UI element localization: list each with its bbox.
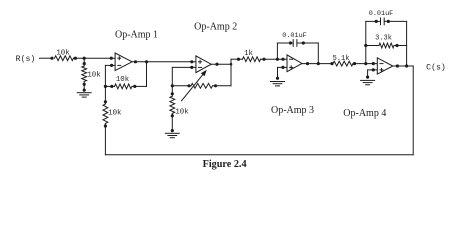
node junction (134, 60, 137, 63)
node C(s) output label (426, 62, 446, 72)
node junction (214, 84, 217, 87)
wire (171, 86, 173, 96)
potentiometer arrow (182, 70, 207, 101)
value label 10k R1 (56, 50, 70, 58)
wire (105, 85, 114, 87)
node junction (372, 62, 375, 65)
node junction (230, 63, 233, 66)
node junction (171, 114, 174, 117)
node junction (171, 129, 174, 132)
svg-text:10k: 10k (56, 50, 70, 58)
wire (213, 85, 232, 87)
wire (172, 85, 191, 87)
node junction (364, 62, 367, 65)
wire (393, 65, 413, 67)
capacitor C2 (U4 feedback) (381, 18, 385, 25)
node junction (110, 85, 113, 88)
ground G4 (361, 80, 375, 84)
value label 0.01uF C2 (369, 10, 393, 18)
wire (297, 42, 318, 44)
node junction (281, 58, 284, 61)
wire (366, 20, 381, 22)
op-amp U3 (287, 55, 302, 72)
wire (bottom feedback rail) (105, 154, 413, 156)
node junction (330, 62, 333, 65)
value label 10k R2 (87, 71, 101, 79)
node junction (110, 64, 113, 67)
wire (105, 64, 115, 66)
wire (74, 57, 116, 59)
value label 0.01uF C1 (282, 32, 306, 40)
resistor R7 5.1k (333, 61, 353, 66)
node junction (145, 60, 148, 63)
svg-text:3.3k: 3.3k (375, 35, 392, 43)
node junction (171, 84, 174, 87)
wire (104, 65, 106, 104)
op-amp U3 label (271, 105, 314, 116)
svg-text:10k: 10k (87, 71, 101, 79)
wire (261, 58, 288, 60)
svg-text:5.1k: 5.1k (333, 55, 350, 63)
node junction (133, 85, 136, 88)
node junction (83, 89, 86, 92)
node junction (190, 66, 193, 69)
node A junction (83, 57, 86, 60)
wire (132, 61, 196, 63)
node junction (50, 57, 53, 60)
wire (230, 59, 232, 86)
node junction (83, 83, 86, 86)
wire (276, 43, 278, 59)
node junction (396, 64, 399, 67)
node junction (387, 20, 390, 23)
node junction (281, 66, 284, 69)
op-amp U4 (377, 58, 393, 74)
svg-text:0.01uF: 0.01uF (369, 10, 393, 18)
wire (171, 67, 173, 85)
svg-text:R(s): R(s) (16, 54, 36, 64)
node junction (237, 58, 240, 61)
wire (83, 82, 85, 91)
node junction (104, 100, 107, 103)
wire (83, 58, 85, 66)
svg-text:10k: 10k (116, 76, 130, 84)
capacitor C1 (U3 feedback) (293, 40, 297, 47)
node junction (317, 62, 320, 65)
wire (231, 58, 243, 60)
wire (353, 63, 377, 65)
node junction (190, 60, 193, 63)
node junction (302, 41, 305, 44)
svg-text:10k: 10k (108, 109, 122, 117)
wire (277, 42, 293, 44)
svg-text:1k: 1k (244, 50, 253, 58)
wire (406, 21, 408, 66)
wire (171, 113, 173, 131)
wire (40, 57, 53, 59)
value label 1k R6 (244, 50, 253, 58)
value label 10k R5 (175, 108, 189, 116)
resistor R6 1k (243, 57, 261, 62)
wire (172, 66, 196, 68)
node junction (74, 57, 77, 60)
op-amp U2 label (194, 22, 237, 33)
node junction (171, 92, 174, 95)
node junction (395, 44, 398, 47)
wire (output feedback drop) (412, 66, 414, 155)
wire (146, 62, 148, 87)
wire (368, 69, 378, 71)
wire (132, 85, 147, 87)
resistor R5 10k (U2 to ground) (170, 96, 175, 113)
node junction (187, 84, 190, 87)
value label 3.3k C2 loop (375, 35, 392, 43)
node junction (110, 57, 113, 60)
node junction (289, 41, 292, 44)
wire (366, 45, 379, 47)
svg-text:Op-Amp 4: Op-Amp 4 (343, 108, 386, 119)
node junction (405, 64, 408, 67)
svg-text:Figure 2.4: Figure 2.4 (203, 159, 247, 170)
caption Figure 2.4 (203, 159, 247, 170)
ground G2 (165, 133, 179, 137)
wire (278, 66, 288, 68)
node junction (276, 77, 279, 80)
value label 10k R4 (116, 76, 130, 84)
value label 5.1k R7 (333, 55, 350, 63)
op-amp U2 (196, 56, 211, 73)
wire (277, 67, 279, 79)
svg-text:Op-Amp 2: Op-Amp 2 (194, 22, 237, 33)
potentiometer P1 (U2 feedback) (191, 83, 213, 88)
node junction (353, 62, 356, 65)
node junction (364, 44, 367, 47)
node junction (262, 58, 265, 61)
wire (211, 63, 231, 65)
node junction (372, 68, 375, 71)
node junction (83, 62, 86, 65)
ground G1 (77, 93, 91, 97)
svg-text:10k: 10k (175, 108, 189, 116)
node R(s) input label (16, 54, 36, 64)
resistor R8 3.3k (U4 feedback) (379, 43, 394, 48)
wire (317, 43, 319, 64)
resistor R1 10k (input series) (55, 56, 74, 61)
svg-text:0.01uF: 0.01uF (282, 32, 306, 40)
resistor R2 10k (input shunt) (82, 66, 87, 82)
wire (384, 20, 406, 22)
op-amp U4 label (343, 108, 386, 119)
ground G3 (271, 82, 285, 86)
node junction (366, 76, 369, 79)
wire (367, 70, 369, 78)
wire (302, 63, 333, 65)
wire (394, 45, 407, 47)
wire (365, 21, 367, 63)
op-amp U1 (115, 53, 132, 71)
op-amp U1 label (115, 30, 158, 41)
node junction (215, 63, 218, 66)
resistor R3 10k (to feedback rail) (103, 104, 108, 124)
node junction (375, 20, 378, 23)
node junction (306, 62, 309, 65)
svg-text:Op-Amp 3: Op-Amp 3 (271, 105, 314, 116)
node junction (104, 85, 107, 88)
svg-text:Op-Amp 1: Op-Amp 1 (115, 30, 158, 41)
value label 10k R3 (108, 109, 122, 117)
svg-text:C(s): C(s) (426, 62, 446, 72)
resistor R4 10k (U1 feedback) (115, 84, 133, 89)
node junction (276, 58, 279, 61)
wire (104, 124, 106, 155)
node junction (104, 124, 107, 127)
